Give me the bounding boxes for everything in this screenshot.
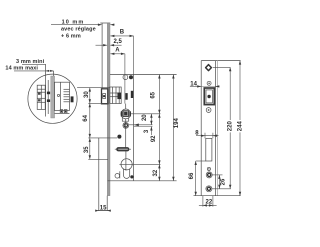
right view dim 22	[202, 196, 204, 207]
right view screw hole bottom	[206, 186, 212, 192]
right view top extension	[218, 60, 241, 62]
svg-text:65: 65	[150, 91, 156, 98]
leaders 3mm mini / 14mm maxi	[22, 63, 46, 65]
faceplate edge band	[107, 23, 110, 195]
top screw hole ring	[123, 75, 128, 80]
svg-text:220: 220	[228, 121, 234, 132]
faceplate bottom edge	[98, 210, 109, 212]
faceplate lower bracket left	[98, 138, 100, 211]
oval slot	[117, 148, 129, 152]
latch head	[102, 89, 108, 104]
faceplate top cap	[100, 22, 110, 24]
svg-text:22: 22	[206, 199, 213, 205]
latch mechanism box	[110, 87, 121, 104]
right view small circle	[207, 167, 210, 170]
ext cylinder center	[119, 163, 160, 165]
right view screw hole mid	[206, 172, 212, 178]
top screw hole dot	[129, 75, 133, 79]
svg-text:26: 26	[220, 178, 226, 185]
case top	[110, 74, 134, 76]
latch spring block	[125, 93, 127, 100]
svg-text:20: 20	[142, 114, 148, 121]
dim 10mm	[51, 24, 102, 26]
svg-text:2,5: 2,5	[114, 39, 123, 45]
dim B	[110, 35, 133, 37]
svg-text:14 mm maxi: 14 mm maxi	[5, 66, 38, 72]
faceplate lower bracket right	[106, 196, 108, 211]
right view dim 244	[239, 61, 241, 120]
dim 15	[98, 210, 109, 212]
right view dim 220	[229, 67, 231, 120]
arrowheads	[46, 24, 242, 212]
faceplate upper slide line	[101, 23, 103, 89]
right view bottom edge	[194, 195, 241, 197]
cam circle	[115, 174, 120, 179]
dim 2,5	[96, 44, 108, 46]
right view small hole	[207, 81, 211, 85]
svg-text:64: 64	[83, 114, 89, 121]
right view seam	[201, 135, 218, 137]
svg-text:15: 15	[100, 205, 107, 211]
svg-text:92: 92	[151, 135, 157, 142]
cylinder center vertical	[125, 151, 127, 171]
follower spring clip	[122, 117, 128, 121]
detail right block	[54, 82, 69, 110]
right view dim 8	[196, 135, 205, 137]
dimension lines	[14, 25, 240, 211]
ext screw lower	[134, 126, 153, 128]
svg-text:10 mm: 10 mm	[62, 19, 85, 25]
case bottom	[108, 180, 134, 182]
latch dark block	[117, 93, 121, 100]
right view top screw	[206, 65, 212, 71]
cylinder fixing screw	[123, 123, 129, 129]
ext follower center	[131, 113, 161, 115]
svg-text:66: 66	[189, 172, 195, 179]
euro cylinder profile	[121, 159, 132, 170]
svg-text:avec réglage: avec réglage	[61, 27, 96, 33]
fixing hole dot	[117, 135, 121, 139]
right view latch front	[204, 88, 214, 105]
svg-text:A: A	[115, 48, 120, 54]
detail circle	[28, 74, 77, 123]
dot right of cylinder	[130, 175, 133, 178]
case bottom extension	[134, 180, 177, 182]
left chain	[89, 88, 91, 160]
svg-text:194: 194	[174, 118, 180, 129]
right chain 20/3	[150, 114, 152, 125]
right view dim 14	[190, 85, 201, 87]
svg-text:30: 30	[84, 91, 90, 98]
case right edge	[133, 75, 135, 181]
svg-text:14: 14	[190, 81, 197, 87]
svg-text:+ 6 mm: + 6 mm	[61, 34, 81, 40]
detail feet	[60, 110, 63, 113]
svg-text:B: B	[120, 30, 125, 36]
follower hub	[121, 109, 131, 119]
svg-text:244: 244	[238, 121, 244, 132]
detail dark stop	[71, 96, 74, 102]
case top extension	[134, 74, 177, 76]
right view plate	[200, 61, 202, 196]
right view latch slot	[206, 138, 212, 161]
right chain 65/92/32	[158, 75, 160, 181]
svg-text:3 mm mini: 3 mm mini	[16, 59, 45, 65]
svg-text:35: 35	[84, 146, 90, 153]
spring anchor block	[131, 91, 133, 98]
ext screw upper	[129, 124, 153, 126]
svg-text:32: 32	[153, 169, 159, 176]
right view dim 66	[195, 161, 197, 196]
dim 194	[172, 75, 174, 181]
dim A	[110, 53, 125, 55]
detail plates	[45, 64, 47, 116]
right view dim 26	[218, 175, 220, 189]
detail left serrated block	[37, 85, 45, 109]
